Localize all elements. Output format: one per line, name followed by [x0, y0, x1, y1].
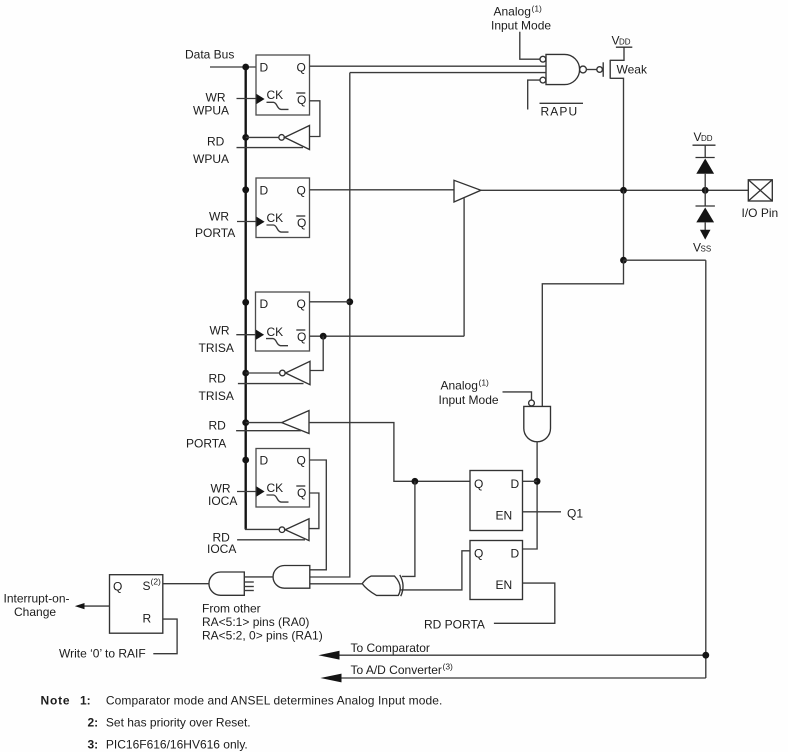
node data bus / RD TRISA	[242, 370, 249, 377]
wire NAND input from long vertical	[350, 72, 546, 74]
buffer RD WPUA	[279, 126, 310, 150]
wire analog input mode to AND bubble	[503, 392, 532, 400]
latch IOCA	[256, 449, 310, 508]
wire driver enable from TRISA Qbar	[463, 198, 465, 336]
diode D1 clamp to VDD	[696, 145, 715, 190]
wire RD PORTA buffer input from FF1 Q	[309, 423, 470, 482]
svg-text:S: S	[143, 579, 151, 593]
label RAPU	[540, 103, 584, 118]
wire RAPU to NAND	[528, 80, 540, 109]
note 3	[88, 737, 248, 751]
svg-text:RA<5:2, 0> pins (RA1): RA<5:2, 0> pins (RA1)	[202, 629, 323, 643]
svg-text:DD: DD	[619, 38, 631, 47]
wire IOCA Q to IOC AND	[310, 460, 327, 570]
svg-text:Change: Change	[14, 605, 56, 619]
svg-text:Note: Note	[41, 694, 71, 708]
svg-text:Input Mode: Input Mode	[491, 19, 551, 33]
and gate U3 analog input gate	[524, 400, 551, 442]
wire to comparator with arrow	[318, 651, 705, 660]
wire WPUA Qbar feedback	[310, 101, 320, 137]
label From other RA pins	[202, 602, 323, 643]
svg-text:WR: WR	[209, 210, 229, 224]
svg-text:To A/D Converter: To A/D Converter	[351, 663, 442, 677]
svg-text:EN: EN	[496, 578, 513, 592]
wire WR IOCA clock	[237, 491, 257, 493]
svg-text:(1): (1)	[479, 378, 490, 388]
label RD PORTA (bottom)	[424, 618, 485, 632]
wire to A/D converter with arrow	[320, 674, 705, 683]
label To Comparator	[351, 641, 430, 655]
label WR IOCA	[208, 482, 237, 509]
latch TRISA	[256, 292, 310, 351]
svg-text:WR: WR	[210, 324, 230, 338]
svg-text:TRISA: TRISA	[199, 341, 234, 355]
svg-text:CK: CK	[267, 211, 284, 225]
wire long vertical TRISA Q to NAND and IOC and	[310, 73, 350, 577]
flip-flop FF2 (RD PORTA capture)	[470, 541, 523, 600]
wire RD IOCA enable	[237, 539, 305, 541]
node data bus / PORTA D	[242, 186, 249, 193]
svg-text:Q: Q	[113, 580, 122, 594]
wire WR WPUA clock	[237, 98, 257, 100]
label WR TRISA	[199, 324, 234, 356]
svg-text:Write ‘0’ to RAIF: Write ‘0’ to RAIF	[59, 647, 146, 661]
wire FF2 Q to XOR	[401, 551, 471, 590]
node data bus / RD PORTA	[242, 419, 249, 426]
svg-text:D: D	[260, 61, 269, 75]
node data bus / TRISA D	[242, 299, 249, 306]
wire WR PORTA clock	[237, 221, 257, 223]
xor gate U4 change detect	[362, 575, 403, 596]
node data bus / IOCA D	[242, 457, 249, 464]
wire WR TRISA clock	[236, 334, 256, 336]
svg-text:WPUA: WPUA	[193, 152, 229, 166]
svg-text:Weak: Weak	[617, 63, 648, 77]
svg-text:Q: Q	[474, 477, 483, 491]
wire data bus vertical	[244, 67, 246, 529]
svg-text:Input Mode: Input Mode	[439, 393, 499, 407]
wire NAND output to transistor gate	[586, 69, 597, 71]
svg-text:3:: 3:	[88, 737, 99, 751]
label Analog Input Mode (lower)	[439, 378, 499, 408]
wire analog input mode to NAND	[520, 32, 540, 60]
svg-text:RAPU: RAPU	[541, 105, 579, 119]
svg-text:Data Bus: Data Bus	[185, 48, 234, 62]
svg-text:Interrupt-on-: Interrupt-on-	[4, 592, 70, 606]
wire FF1 EN to Q1 label	[523, 511, 562, 513]
wire FF1 D stub	[523, 480, 538, 482]
svg-text:D: D	[511, 547, 520, 561]
I/O pin pad	[742, 180, 779, 220]
svg-text:Q: Q	[297, 486, 306, 500]
label Interrupt-on-Change	[4, 592, 70, 620]
svg-text:Q: Q	[297, 297, 306, 311]
svg-text:Q: Q	[297, 61, 306, 75]
wire pin line	[481, 189, 748, 191]
wire right vertical to comparator/ADC	[705, 260, 707, 678]
wire IOCA Qbar to RD IOCA buffer	[309, 493, 319, 529]
node weak pull-up on pin line	[620, 187, 627, 194]
svg-text:I/O Pin: I/O Pin	[742, 206, 779, 220]
svg-text:To Comparator: To Comparator	[351, 641, 430, 655]
svg-text:RD: RD	[207, 135, 225, 149]
svg-text:D: D	[511, 477, 520, 491]
svg-text:1:: 1:	[80, 694, 91, 708]
wire U6 output to RAIF latch S	[163, 583, 209, 585]
label Analog Input Mode (top)	[491, 4, 551, 33]
label Write 0 to RAIF	[59, 647, 146, 661]
wire RD WPUA to bus	[246, 136, 279, 138]
svg-text:CK: CK	[267, 325, 284, 339]
svg-text:CK: CK	[267, 88, 284, 102]
wire RD PORTA to bus	[246, 422, 282, 424]
wire RAIF R input from Write 0	[153, 619, 177, 654]
svg-text:PIC16F616/16HV616 only.: PIC16F616/16HV616 only.	[106, 737, 248, 751]
svg-text:(1): (1)	[532, 4, 543, 14]
svg-text:Q: Q	[297, 93, 306, 107]
label RD PORTA	[186, 419, 226, 451]
svg-text:From other: From other	[202, 602, 261, 616]
svg-text:Analog: Analog	[441, 379, 478, 393]
svg-text:Q: Q	[297, 330, 306, 344]
svg-text:DD: DD	[701, 134, 713, 143]
latch WPUA	[256, 55, 310, 115]
svg-text:R: R	[143, 612, 152, 626]
svg-text:PORTA: PORTA	[186, 437, 226, 451]
svg-text:D: D	[260, 184, 269, 198]
svg-text:CK: CK	[267, 481, 284, 495]
node AND output / FF1 D	[534, 478, 541, 485]
label Data Bus	[185, 48, 234, 62]
buffer RD IOCA	[279, 519, 309, 541]
label RD IOCA	[207, 531, 236, 557]
label Weak	[617, 63, 648, 77]
svg-text:SS: SS	[701, 245, 712, 254]
wire RD TRISA enable	[238, 383, 304, 385]
svg-text:Q: Q	[297, 454, 306, 468]
svg-text:Q: Q	[297, 216, 306, 230]
wire U5 output to U6	[244, 576, 273, 578]
wire TRISA Qbar feedback to RD TRISA buffer	[310, 336, 323, 370]
node clamp diodes on pin line	[702, 187, 709, 194]
wire FF2 EN from RD PORTA	[494, 583, 555, 623]
wire TRISA Qbar to driver enable	[310, 335, 465, 337]
label To A/D Converter	[351, 662, 454, 678]
svg-text:Comparator mode and ANSEL dete: Comparator mode and ANSEL determines Ana…	[106, 694, 443, 708]
wire RD WPUA enable	[237, 147, 304, 149]
wire RD PORTA enable	[236, 430, 301, 432]
nand gate U1 weak pull-up enable	[540, 54, 586, 84]
wire AND output to FF D inputs	[523, 442, 538, 549]
node TRISA Q on long vertical	[346, 298, 353, 305]
label WR PORTA	[195, 210, 235, 241]
node TRISA Qbar feedback	[320, 333, 327, 340]
svg-text:WPUA: WPUA	[193, 104, 229, 118]
svg-text:Q: Q	[474, 547, 483, 561]
node data bus / RD WPUA	[242, 134, 249, 141]
svg-text:Analog: Analog	[494, 5, 531, 19]
transistor Q1 weak pull-up PMOS	[597, 47, 624, 190]
svg-text:D: D	[260, 297, 269, 311]
wire data bus horizontal	[210, 66, 256, 68]
wire XOR output to IOC AND	[310, 583, 362, 585]
and gate U5 IOC enable	[273, 566, 310, 589]
wire TRISA Q to long vertical	[310, 301, 350, 303]
flip-flop FF1 (Q1)	[470, 471, 523, 531]
label RD TRISA	[199, 372, 234, 404]
power VDD (clamp)	[693, 130, 716, 145]
wire pin to analog AND (step)	[542, 190, 706, 406]
svg-text:(3): (3)	[443, 662, 454, 672]
label WR WPUA	[193, 91, 229, 118]
svg-text:WR: WR	[206, 91, 226, 105]
svg-text:D: D	[260, 454, 269, 468]
node FF1 Q / XOR branch	[412, 478, 419, 485]
buffer RD PORTA	[282, 411, 309, 434]
wire PORTA Q to driver	[310, 189, 455, 191]
svg-text:RD: RD	[209, 419, 227, 433]
wire RD TRISA to bus	[246, 372, 280, 374]
svg-text:Q1: Q1	[567, 507, 583, 521]
note 2	[88, 716, 251, 730]
svg-text:RD: RD	[209, 372, 227, 386]
svg-text:Q: Q	[297, 184, 306, 198]
wire data bus end to RD IOCA bubble	[246, 528, 280, 529]
note 1	[41, 694, 443, 708]
wire XOR top input from FF1 Q node	[402, 481, 415, 576]
latch RAIF S/R	[110, 575, 163, 634]
label Q1	[567, 507, 583, 521]
ground VSS arrow	[693, 230, 711, 255]
buffer RD TRISA	[280, 361, 310, 384]
wire WPUA Q to NAND	[310, 65, 547, 67]
svg-text:IOCA: IOCA	[207, 542, 236, 556]
node comparator line / right vertical	[702, 652, 709, 659]
svg-text:Set has priority over Reset.: Set has priority over Reset.	[106, 716, 251, 730]
svg-text:TRISA: TRISA	[199, 389, 234, 403]
svg-text:IOCA: IOCA	[208, 494, 237, 508]
wire RAIF Q output arrow	[75, 603, 110, 609]
diode D2 clamp to VSS	[696, 190, 715, 230]
svg-text:PORTA: PORTA	[195, 226, 235, 240]
latch PORTA	[256, 178, 310, 238]
power VDD (weak pull-up)	[612, 34, 633, 48]
svg-text:RD PORTA: RD PORTA	[424, 618, 485, 632]
and gate U6 other-pins combine	[209, 572, 254, 595]
svg-text:2:: 2:	[88, 716, 99, 730]
node data bus / WPUA D	[242, 64, 249, 71]
driver U2 output buffer	[454, 180, 481, 202]
svg-text:(2): (2)	[151, 577, 162, 587]
svg-text:RA<5:1> pins (RA0): RA<5:1> pins (RA0)	[202, 615, 309, 629]
label RD WPUA	[193, 135, 229, 167]
svg-text:EN: EN	[496, 509, 513, 523]
